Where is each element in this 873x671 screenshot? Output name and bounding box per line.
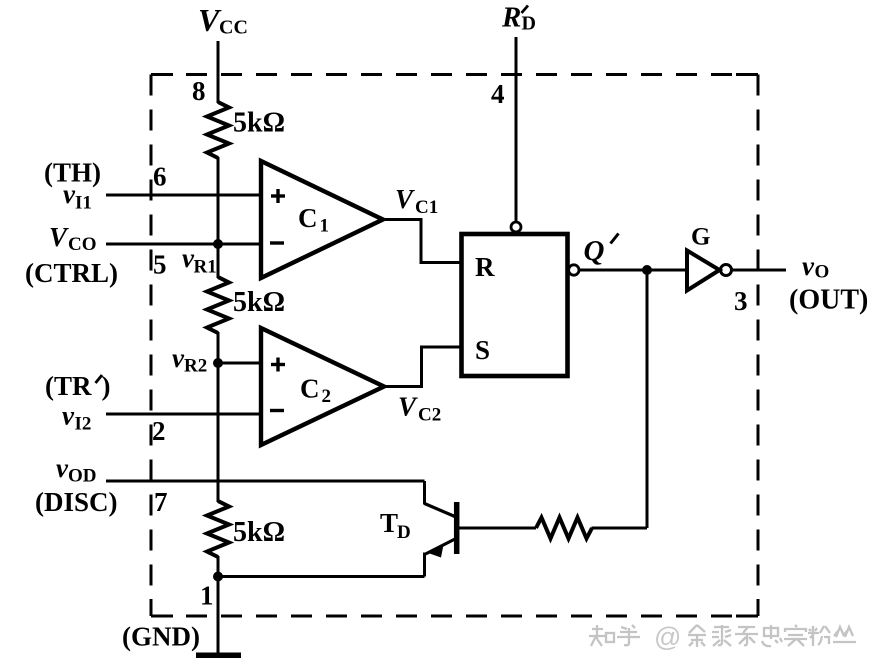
svg-text:R: R: [501, 2, 521, 34]
svg-text:R1: R1: [194, 257, 217, 278]
svg-text:): ): [102, 371, 111, 401]
svg-text:OD: OD: [68, 466, 97, 487]
svg-text:(DISC): (DISC): [35, 487, 118, 517]
svg-text:C2: C2: [418, 405, 441, 426]
svg-text:5kΩ: 5kΩ: [233, 287, 285, 318]
svg-text:D: D: [522, 13, 536, 35]
svg-text:(CTRL): (CTRL): [25, 258, 118, 288]
svg-text:5: 5: [153, 250, 167, 280]
svg-text:I1: I1: [75, 193, 92, 214]
svg-text:CC: CC: [219, 17, 248, 39]
svg-text:C1: C1: [415, 197, 438, 218]
svg-text:7: 7: [154, 487, 168, 517]
svg-text:2: 2: [322, 386, 332, 407]
svg-text:v: v: [62, 401, 75, 431]
svg-text:Q: Q: [584, 235, 605, 267]
svg-text:T: T: [380, 508, 398, 538]
svg-text:V: V: [398, 392, 418, 422]
svg-text:1: 1: [200, 581, 214, 611]
svg-text:v: v: [802, 251, 815, 281]
svg-text:C: C: [298, 203, 318, 233]
svg-text:C: C: [300, 374, 320, 404]
svg-text:3: 3: [734, 286, 748, 316]
svg-text:5kΩ: 5kΩ: [233, 108, 285, 139]
svg-text:R: R: [475, 252, 495, 282]
svg-text:O: O: [815, 262, 830, 283]
svg-text:8: 8: [192, 76, 206, 106]
svg-text:S: S: [475, 335, 490, 365]
svg-text:V: V: [49, 222, 69, 252]
svg-text:@: @: [654, 622, 681, 652]
svg-text:(GND): (GND): [122, 622, 200, 652]
svg-text:(OUT): (OUT): [789, 285, 868, 316]
svg-text:CO: CO: [68, 234, 97, 255]
svg-text:V: V: [395, 184, 415, 214]
svg-text:4: 4: [491, 79, 505, 109]
svg-text:5kΩ: 5kΩ: [233, 517, 285, 548]
svg-text:1: 1: [320, 216, 330, 237]
svg-text:G: G: [691, 224, 710, 251]
svg-text:6: 6: [153, 162, 167, 192]
svg-text:I2: I2: [75, 414, 92, 435]
svg-text:2: 2: [152, 416, 166, 446]
svg-text:R2: R2: [184, 356, 207, 377]
svg-text:D: D: [397, 522, 411, 543]
svg-text:(TR: (TR: [45, 371, 92, 401]
